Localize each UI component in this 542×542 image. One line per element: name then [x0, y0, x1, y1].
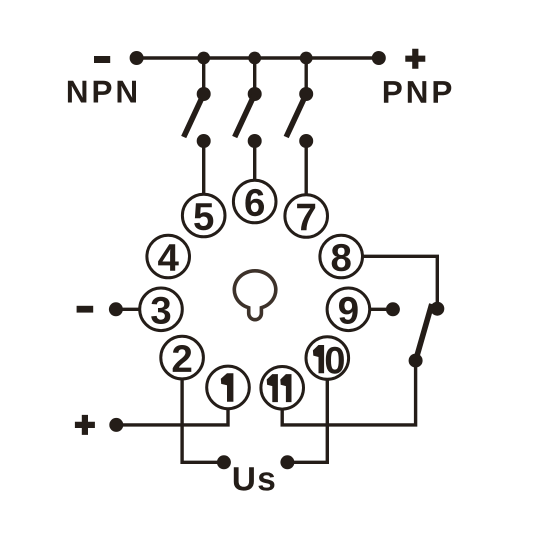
switch S1 blade (open) [184, 94, 204, 137]
switch S4 blade (open) [416, 304, 432, 361]
node: plus terminal dot (pin 1) [109, 418, 123, 432]
pin 1 [207, 366, 250, 409]
wire: switch 3 to pin 7 [305, 141, 308, 194]
label: minus sign mid left [77, 306, 94, 313]
node: switch 2 lower contact dot [248, 134, 262, 148]
pin 3 [140, 288, 183, 331]
node: right switch lower contact dot [409, 354, 423, 368]
node: switch 3 lower contact dot [299, 134, 313, 148]
node: Us right terminal dot [280, 455, 294, 469]
wire: switch 2 to pin 6 [253, 141, 256, 180]
label: plus sign bottom left [75, 415, 95, 435]
wire: pin 2 to Us left dot (down then right) [182, 379, 224, 462]
switch S2 blade (open) [235, 94, 255, 137]
node: switch 3 upper contact dot [299, 87, 313, 101]
pin 11 [261, 367, 304, 410]
pin 8 [320, 235, 363, 278]
wire: pin 8 to right switch (horizontal + down) [363, 256, 438, 308]
node: pin 9 terminal dot [386, 302, 400, 316]
node: left rail terminal dot (minus) [130, 51, 144, 65]
wire: pin 1 to plus terminal (down then left) [116, 409, 228, 425]
label: minus sign top left [94, 56, 110, 63]
pin 5 [182, 194, 225, 237]
pin 9 [327, 288, 370, 331]
wire: pin 10 to Us right dot (down then left) [287, 380, 327, 463]
switch S3 blade (open) [286, 94, 306, 137]
node: switch 1 lower contact dot [197, 134, 211, 148]
node: Us left terminal dot [217, 455, 231, 469]
wire: top supply rail [137, 56, 379, 59]
label: Us supply voltage [234, 467, 275, 490]
node: right switch upper contact dot [430, 302, 444, 316]
wire: pin 3 to minus terminal [116, 308, 140, 311]
node: minus terminal dot (pin 3) [109, 302, 123, 316]
wire: right switch to pin 11 (down, left, up) [282, 361, 415, 425]
wire: switch 1 to pin 5 [202, 141, 205, 194]
pin 6 [233, 180, 276, 223]
socket keyway [234, 271, 276, 320]
pin 2 [161, 336, 204, 379]
node: right rail terminal dot (plus) [372, 51, 386, 65]
wire: switch 3 drop from rail [305, 58, 308, 94]
wire: switch 1 drop from rail [202, 58, 205, 94]
node: switch 1 upper contact dot [197, 87, 211, 101]
node: rail junction dot 3 [300, 52, 313, 65]
pin 7 [285, 195, 328, 238]
wire: switch 2 drop from rail [253, 58, 256, 94]
pin 10 [306, 337, 349, 380]
node: rail junction dot 2 [248, 52, 261, 65]
label: PNP [384, 81, 451, 103]
label: plus sign top right [405, 49, 425, 69]
label: NPN [68, 81, 136, 103]
node: rail junction dot 1 [197, 52, 210, 65]
node: switch 2 upper contact dot [248, 87, 262, 101]
pin 4 [147, 235, 190, 278]
wire: pin 9 stub [370, 308, 393, 311]
